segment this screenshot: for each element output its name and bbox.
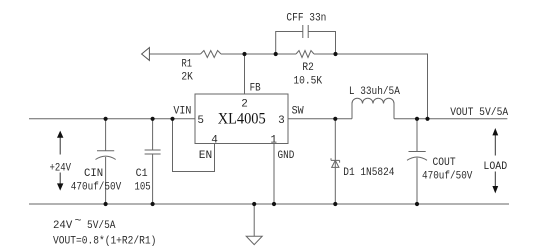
wire node CFF-left to R2 [276, 53, 296, 55]
capacitor CIN leads [105, 119, 107, 204]
capacitor COUT leads [416, 119, 418, 204]
junction node CIN-gnd [104, 202, 108, 206]
svg-text:FB: FB [250, 82, 261, 94]
svg-text:3: 3 [278, 115, 285, 127]
svg-text:XL4005: XL4005 [218, 110, 266, 127]
+24V arrow heads [57, 131, 63, 191]
svg-text:470uf/50V: 470uf/50V [422, 171, 473, 183]
wire R2 to node CFF-right [314, 53, 336, 55]
junction node COUT-gnd [415, 202, 419, 206]
svg-text:LOAD: LOAD [483, 161, 507, 173]
junction node earth-gnd [252, 202, 256, 206]
junction node EN-VIN [170, 117, 174, 121]
svg-text:~: ~ [75, 216, 82, 228]
wire node FB to node CFF-left [245, 53, 276, 55]
+24V arrow stems [59, 137, 61, 184]
capacitor CFF branch wires [276, 32, 336, 55]
svg-text:C1: C1 [136, 168, 148, 180]
junction node CFF-right [333, 52, 337, 56]
junction node C1-gnd [151, 202, 155, 206]
svg-text:VIN: VIN [173, 105, 191, 117]
svg-text:VOUT=0.8*(1+R2/R1): VOUT=0.8*(1+R2/R1) [53, 236, 156, 248]
wire arrow to R1 [149, 53, 200, 55]
svg-text:L 33uh/5A: L 33uh/5A [349, 86, 400, 98]
svg-text:COUT: COUT [433, 157, 456, 169]
wire VOUT rail [394, 118, 507, 120]
capacitor COUT plates [407, 152, 427, 161]
junction node GNDpin-gnd [272, 202, 276, 206]
svg-text:VOUT 5V/5A: VOUT 5V/5A [450, 107, 508, 119]
svg-text:2K: 2K [181, 71, 193, 83]
svg-text:2: 2 [241, 99, 248, 111]
svg-text:1: 1 [270, 134, 277, 146]
inductor L [352, 98, 394, 119]
wire feedback sense line to VOUT [336, 54, 428, 119]
svg-text:CFF 33n: CFF 33n [286, 13, 326, 25]
svg-text:R2: R2 [302, 62, 313, 74]
junction node CFF-left [274, 52, 278, 56]
wire ground rail [29, 203, 509, 205]
svg-text:R1: R1 [182, 58, 193, 70]
svg-text:5V/5A: 5V/5A [87, 220, 116, 232]
svg-text:EN: EN [199, 150, 212, 162]
svg-text:10.5K: 10.5K [293, 76, 322, 88]
diode D1 symbol [331, 158, 340, 167]
junction node C1-VIN [151, 117, 155, 121]
svg-text:5: 5 [197, 115, 204, 127]
svg-text:24V: 24V [53, 220, 73, 232]
svg-text:CIN: CIN [84, 168, 103, 180]
svg-text:D1 1N5824: D1 1N5824 [343, 167, 395, 179]
wire VIN rail [29, 118, 195, 120]
LOAD arrow heads [492, 128, 498, 193]
wire FB pin 2 [244, 54, 246, 94]
junction node D1-gnd [333, 202, 337, 206]
ground symbol [246, 236, 262, 244]
LOAD arrow stems [494, 135, 496, 187]
wire EN pin loop to VIN [173, 119, 215, 172]
junction node sense-VOUT [425, 117, 429, 121]
left arrow connector [142, 48, 150, 61]
svg-text:SW: SW [292, 105, 304, 117]
svg-text:105: 105 [134, 182, 150, 194]
svg-text:GND: GND [278, 150, 295, 162]
junction node D1-SW [333, 117, 337, 121]
resistor R1 [201, 51, 222, 58]
resistor R2 [296, 51, 314, 58]
junction node CIN-VIN [104, 117, 108, 121]
capacitor CIN plates [96, 151, 116, 160]
svg-text:+24V: +24V [50, 163, 72, 175]
junction node COUT-VOUT [415, 117, 419, 121]
junction node FB on top rail [242, 52, 246, 56]
capacitor CFF plates [303, 25, 308, 38]
svg-text:4: 4 [211, 134, 218, 146]
wire R1 to node FB [221, 53, 245, 55]
wire GND pin 1 [273, 144, 275, 205]
svg-text:470uf/50V: 470uf/50V [71, 182, 122, 194]
wire SW pin to inductor [288, 118, 352, 120]
op-amp U1 XL4005 box [195, 94, 288, 144]
diode D1 lead [334, 119, 336, 204]
capacitor C1 plates [145, 150, 161, 154]
wire ground stub [253, 204, 255, 236]
capacitor C1 leads [152, 119, 154, 204]
